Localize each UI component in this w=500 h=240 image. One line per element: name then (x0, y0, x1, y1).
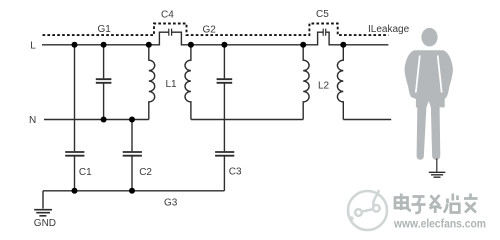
svg-text:L: L (30, 40, 36, 51)
svg-text:G1: G1 (98, 24, 112, 35)
svg-text:N: N (29, 115, 36, 126)
wire N line (44, 119, 149, 121)
capacitor X2 (L-N) (217, 79, 233, 83)
svg-text:C4: C4 (161, 9, 174, 20)
wire X-cap to N (103, 84, 105, 120)
capacitor C4 (169, 29, 172, 36)
inductor L2 left winding (303, 47, 309, 120)
capacitor X1 (L-N) (96, 79, 112, 83)
svg-text:G3: G3 (164, 198, 178, 209)
svg-text:G2: G2 (203, 25, 217, 36)
wire N tail after L2 (343, 119, 391, 121)
svg-text:C1: C1 (79, 167, 92, 178)
wire inter-choke N segment (191, 119, 303, 121)
ground GND symbol (34, 191, 52, 216)
capacitor C3 (215, 152, 234, 156)
svg-text:L2: L2 (318, 81, 330, 92)
svg-text:C5: C5 (316, 9, 329, 20)
wire G3 line (43, 190, 224, 192)
svg-text:GND: GND (34, 218, 56, 229)
wire column x132 (N to C2) (131, 120, 133, 152)
watermark chinese text 电子发烧友 (396, 195, 479, 215)
capacitor C1 (65, 152, 84, 156)
wire C1 to G3 (74, 156, 76, 190)
wire column x74.5 (L to C1) (74, 45, 76, 151)
capacitor C5 (323, 29, 326, 36)
svg-text:ILeakage: ILeakage (368, 24, 410, 35)
human figure armpit slits (416, 56, 442, 93)
wire column x224.4 (L to X-cap2) (223, 45, 225, 79)
svg-text:C2: C2 (139, 167, 152, 178)
leakage dashed path (43, 24, 389, 36)
svg-text:C3: C3 (229, 166, 242, 177)
human figure head (421, 28, 437, 47)
svg-text:L1: L1 (166, 79, 178, 90)
inductor L1 right winding (185, 47, 191, 120)
wire X-cap2 down across N to C3 (223, 84, 225, 152)
wire C3 to G3 corner (223, 156, 225, 190)
wire column x103.6 (L to X-cap) (103, 45, 105, 79)
junction dots on G3 line (72, 188, 136, 194)
inductor L1 left winding (149, 47, 155, 120)
ground under human (429, 159, 446, 178)
junction dots on N line (101, 117, 135, 123)
watermark logo circle (348, 190, 387, 230)
human figure body (405, 50, 453, 160)
wire C2 to G3 (131, 156, 133, 190)
svg-text:www.elecfans.com: www.elecfans.com (393, 219, 486, 231)
wire L line (42, 32, 388, 45)
inductor L2 right winding (337, 47, 343, 120)
capacitor C2 (123, 152, 142, 156)
junction dots on L line (72, 42, 347, 48)
